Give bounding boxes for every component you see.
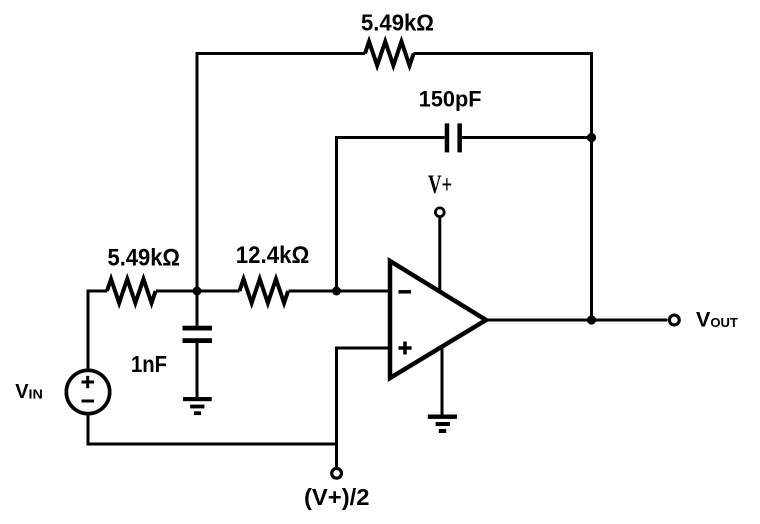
source V_IN circle (66, 370, 109, 413)
wire: top feedback left segment (197, 52, 365, 55)
wire: cap branch vertical (335, 138, 338, 292)
svg-text:1nF: 1nF (131, 351, 167, 377)
terminal (V+)/2 circle (332, 468, 342, 478)
terminal V_OUT circle (669, 315, 679, 325)
node B junction dot (332, 287, 341, 296)
wire: V_IN bottom lead (87, 414, 90, 446)
resistor R2 12.4k (240, 279, 289, 303)
wire: right feedback vertical (590, 52, 593, 320)
svg-text:150pF: 150pF (419, 87, 482, 112)
svg-text:12.4kΩ: 12.4kΩ (236, 242, 309, 269)
ground G1 (183, 397, 212, 415)
node A junction dot (193, 287, 202, 296)
wire: node A to C1 (196, 291, 199, 326)
capacitor C1 1nF plates (183, 326, 213, 343)
svg-text:5.49kΩ: 5.49kΩ (361, 9, 434, 35)
svg-text:V+: V+ (428, 170, 452, 199)
resistor R3 5.49k (top feedback) (365, 42, 414, 66)
svg-text:(V+)/2: (V+)/2 (304, 484, 370, 510)
wire: left feedback vertical (196, 52, 199, 291)
ground G2 (428, 415, 457, 434)
wire: output (486, 319, 667, 322)
source V_IN minus sign (82, 400, 95, 403)
wire: C1 to ground (196, 343, 199, 399)
op-amp non-inverting input plus symbol (399, 342, 412, 355)
resistor R1 5.49k (input) (107, 279, 156, 303)
node D junction dot (output) (587, 315, 596, 324)
wire: cap branch right horizontal (462, 136, 592, 139)
wire: non-inverting input horizontal (335, 347, 390, 350)
source V_IN plus sign (82, 376, 95, 388)
op-amp inverting input minus symbol (399, 290, 412, 294)
terminal V+ circle (435, 208, 444, 217)
capacitor C2 150pF plates (445, 123, 462, 152)
wire: bottom horizontal (87, 443, 337, 446)
wire: input main left (87, 290, 108, 293)
wire: node A to R1 (156, 290, 240, 293)
svg-text:5.49kΩ: 5.49kΩ (108, 244, 181, 271)
wire: op-amp ground lead (441, 346, 444, 415)
op-amp U1 triangle (390, 261, 486, 378)
node C junction dot (feedback tap) (587, 133, 596, 142)
wire: V_IN top lead (87, 290, 90, 371)
wire: V+ supply lead (438, 217, 441, 291)
wire: R2 to node B (289, 290, 337, 293)
wire: cap branch left horizontal (335, 136, 445, 139)
wire: node B to inverting input (337, 290, 391, 293)
wire: non-inverting branch vertical (335, 348, 338, 467)
wire: top feedback right segment (414, 52, 592, 55)
